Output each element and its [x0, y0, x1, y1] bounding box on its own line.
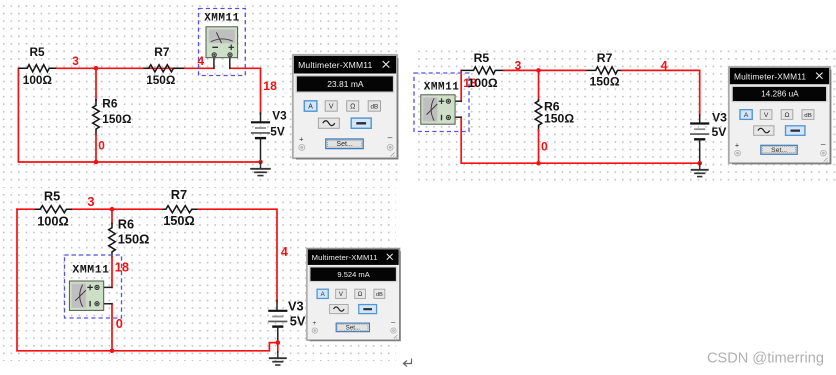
svg-text:Multimeter-XMM11: Multimeter-XMM11	[298, 60, 372, 70]
svg-text:dB: dB	[804, 113, 811, 119]
svg-text:CSDN @timerring: CSDN @timerring	[707, 351, 824, 367]
svg-text:100Ω: 100Ω	[23, 73, 52, 87]
svg-text:XMM11: XMM11	[204, 13, 240, 25]
svg-text:V3: V3	[712, 111, 727, 125]
svg-text:R7: R7	[154, 45, 170, 59]
svg-text:Set...: Set...	[771, 147, 787, 154]
svg-text:–: –	[821, 140, 826, 149]
svg-text:23.81 mA: 23.81 mA	[327, 79, 364, 89]
svg-text:XMM11: XMM11	[72, 265, 109, 277]
svg-text:XMM11: XMM11	[424, 81, 460, 93]
svg-text:+: +	[299, 134, 304, 143]
svg-text:3: 3	[515, 58, 522, 72]
svg-text:dB: dB	[376, 292, 383, 298]
svg-text:Multimeter-XMM11: Multimeter-XMM11	[312, 253, 378, 262]
svg-text:5V: 5V	[270, 124, 285, 138]
svg-text:0: 0	[541, 140, 548, 154]
svg-text:4: 4	[661, 58, 668, 72]
svg-text:14.286 uA: 14.286 uA	[761, 90, 799, 99]
svg-text:R7: R7	[597, 51, 613, 65]
svg-text:150Ω: 150Ω	[118, 231, 150, 246]
svg-text:5V: 5V	[712, 125, 728, 139]
svg-text:3: 3	[87, 194, 94, 209]
svg-text:Ω: Ω	[358, 291, 363, 298]
svg-text:+: +	[735, 142, 739, 150]
svg-text:R5: R5	[44, 188, 60, 203]
svg-text:R7: R7	[171, 187, 187, 202]
svg-text:R5: R5	[30, 45, 46, 59]
svg-text:3: 3	[72, 54, 79, 68]
svg-text:100Ω: 100Ω	[468, 76, 498, 90]
svg-text:150Ω: 150Ω	[590, 74, 620, 88]
svg-text:5V: 5V	[290, 313, 306, 328]
svg-text:Ω: Ω	[350, 104, 355, 111]
svg-text:18: 18	[263, 79, 277, 93]
svg-text:Multimeter-XMM11: Multimeter-XMM11	[734, 72, 806, 81]
svg-text:4: 4	[281, 244, 289, 259]
svg-text:150Ω: 150Ω	[544, 112, 574, 126]
svg-text:9.524 mA: 9.524 mA	[337, 270, 370, 279]
svg-text:V3: V3	[288, 299, 304, 314]
svg-text:V3: V3	[272, 108, 287, 122]
svg-text:A: A	[308, 104, 313, 111]
svg-text:R6: R6	[102, 96, 118, 110]
svg-text:dB: dB	[371, 104, 379, 111]
svg-text:Set...: Set...	[346, 324, 361, 331]
svg-text:R6: R6	[118, 217, 134, 232]
svg-text:150Ω: 150Ω	[146, 73, 175, 87]
svg-text:18: 18	[115, 260, 129, 275]
svg-text:150Ω: 150Ω	[102, 112, 131, 126]
svg-text:0: 0	[98, 139, 105, 153]
svg-text:Ω: Ω	[784, 112, 789, 119]
svg-text:–: –	[388, 132, 393, 142]
svg-text:A: A	[744, 112, 749, 119]
svg-text:V: V	[329, 104, 334, 111]
svg-text:4: 4	[198, 54, 205, 68]
svg-text:150Ω: 150Ω	[163, 213, 195, 228]
svg-text:V: V	[764, 112, 769, 119]
svg-text:Set...: Set...	[336, 141, 352, 148]
svg-text:R5: R5	[474, 51, 490, 65]
svg-text:100Ω: 100Ω	[37, 213, 69, 228]
svg-text:0: 0	[116, 316, 123, 331]
svg-text:+: +	[312, 320, 316, 327]
